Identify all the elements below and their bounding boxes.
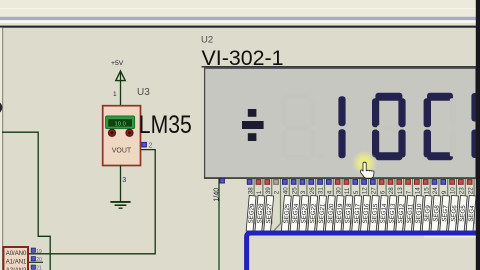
wire power to LM35 pin1 — [120, 72, 122, 106]
pin state square SEG25 — [283, 180, 288, 185]
bus to MCU — [247, 233, 477, 270]
svg-text:SEG8: SEG8 — [432, 204, 440, 222]
wire segment pin SEG25 to bus — [282, 178, 289, 231]
pin state square SEG18 — [344, 180, 349, 185]
wire label SEG17 — [352, 195, 363, 231]
pin state square SEG20 — [327, 180, 332, 185]
wire label SEG18 — [343, 195, 354, 231]
digit C — [424, 93, 453, 161]
wire segment pin SEG27 to bus — [264, 178, 271, 231]
svg-text:12: 12 — [362, 187, 369, 195]
wire label SEG23 — [299, 195, 310, 231]
pin state square SEG13 — [388, 180, 393, 185]
wire segment pin SEG15 to bus — [370, 178, 377, 231]
svg-text:19: 19 — [36, 249, 42, 255]
PIC MCU body (partial) — [3, 247, 28, 270]
svg-text:25: 25 — [291, 187, 298, 195]
pin state square SEG26 — [274, 180, 279, 185]
partial digit at right edge — [471, 93, 478, 158]
pin state square SEG5 — [459, 180, 464, 185]
svg-text:7: 7 — [406, 190, 413, 194]
wire segment pin SEG8 to bus — [432, 178, 439, 231]
wire segment pin SEG4 to bus — [467, 178, 474, 231]
svg-text:40: 40 — [283, 187, 290, 195]
pin state square SEG21 — [318, 180, 323, 185]
wire segment pin SEG22 to bus — [308, 178, 315, 231]
svg-text:39: 39 — [265, 187, 272, 195]
svg-text:SEG5: SEG5 — [459, 204, 467, 222]
svg-text:30: 30 — [335, 187, 342, 195]
hand cursor — [360, 162, 374, 178]
wire label SEG11 — [405, 195, 416, 231]
pin state square SEG19 — [335, 180, 340, 185]
wire segment pin SEG7 to bus — [440, 178, 447, 231]
svg-text:3: 3 — [122, 177, 126, 184]
wire segment pin SEG17 to bus — [352, 178, 359, 231]
wire segment pin SEG9 to bus — [423, 178, 430, 231]
left edge terminal blob — [0, 103, 2, 113]
svg-text:A0/AN0: A0/AN0 — [6, 251, 27, 257]
wire label SEG20 — [325, 195, 336, 231]
wire segment pin SEG13 to bus — [388, 178, 395, 231]
wire label SEG29 — [246, 195, 257, 231]
svg-text:1: 1 — [256, 190, 263, 194]
LM35 up knob — [108, 129, 115, 136]
wire label SEG8 — [431, 195, 442, 231]
pin state square 1/40 — [220, 178, 225, 183]
LM35 pin2 state square — [142, 142, 147, 147]
toolbar band top — [0, 0, 480, 17]
svg-text:SEG4: SEG4 — [468, 204, 476, 222]
wire segment pin SEG28 to bus — [256, 178, 263, 231]
pin state square SEG11 — [406, 180, 411, 185]
ground symbol — [110, 201, 130, 203]
LCD minus/plus sign segments — [248, 109, 257, 117]
svg-text:VOUT: VOUT — [112, 147, 132, 154]
wire segment pin SEG23 to bus — [300, 178, 307, 231]
wire label SEG22 — [308, 195, 319, 231]
wire label SEG14 — [378, 195, 389, 231]
wire label SEG5 — [457, 195, 468, 231]
svg-text:38: 38 — [247, 187, 254, 195]
pin state square AN0 — [31, 248, 35, 252]
wire label SEG28 — [255, 195, 266, 231]
wire segment pin SEG14 to bus — [379, 178, 386, 231]
wire segment pin SEG10 to bus — [414, 178, 421, 231]
svg-text:LM35: LM35 — [139, 111, 192, 139]
pin state square SEG24 — [291, 180, 296, 185]
bus highlight — [424, 236, 476, 238]
LM35 green display — [106, 116, 135, 129]
white divider — [0, 20, 480, 23]
svg-text:+5V: +5V — [111, 60, 124, 67]
digit 0 — [372, 93, 406, 161]
svg-text:21: 21 — [36, 266, 42, 270]
wire segment pin SEG19 to bus — [335, 178, 342, 231]
svg-text:5: 5 — [353, 190, 360, 194]
LM35 down knob — [126, 129, 133, 136]
digit 1 — [338, 96, 345, 158]
svg-text:27: 27 — [371, 187, 378, 195]
pin state square SEG23 — [300, 180, 305, 185]
left editor border — [0, 28, 2, 270]
wire label SEG4 — [466, 195, 477, 231]
wire label SEG7 — [440, 195, 451, 231]
svg-text:1: 1 — [113, 91, 117, 98]
wire label SEG24 — [290, 195, 301, 231]
svg-text:6: 6 — [379, 190, 386, 194]
svg-text:13: 13 — [397, 187, 404, 195]
pin state square SEG10 — [415, 180, 420, 185]
svg-text:11: 11 — [344, 187, 351, 194]
ghost right bars of C cell — [450, 98, 456, 126]
svg-text:SEG7: SEG7 — [441, 204, 449, 222]
svg-text:23: 23 — [459, 187, 466, 195]
wire segment pin SEG16 to bus — [361, 178, 368, 231]
pin state square SEG29 — [247, 180, 252, 185]
svg-text:31: 31 — [318, 187, 325, 195]
svg-text:1/40: 1/40 — [213, 188, 220, 202]
svg-text:U2: U2 — [201, 35, 213, 46]
wire label SEG13 — [387, 195, 398, 231]
wire segment pin SEG24 to bus — [291, 178, 298, 231]
wire segment pin SEG26 to bus — [273, 178, 280, 231]
svg-text:14: 14 — [415, 187, 422, 195]
backplane pin 1/40 wire — [218, 178, 220, 270]
svg-text:10: 10 — [450, 187, 457, 195]
pin state square SEG27 — [265, 180, 270, 185]
pin state square SEG4 — [467, 180, 472, 185]
wire label SEG27 — [264, 195, 275, 231]
cursor glow — [0, 0, 1, 1]
svg-text:SEG9: SEG9 — [424, 204, 432, 222]
right window border — [476, 0, 480, 270]
svg-text:22: 22 — [467, 187, 474, 195]
pin state square SEG14 — [379, 180, 384, 185]
wire segment pin SEG12 to bus — [396, 178, 403, 231]
pin state square SEG8 — [432, 180, 437, 185]
wire label SEG16 — [361, 195, 372, 231]
LCD bottom edge — [204, 177, 476, 179]
wire label SEG19 — [334, 195, 345, 231]
wire label SEG6 — [449, 195, 460, 231]
svg-text:20: 20 — [36, 257, 42, 263]
ghost digit (unlit) — [281, 94, 323, 161]
pin state square SEG6 — [450, 180, 455, 185]
svg-text:4: 4 — [327, 190, 334, 194]
pin state square SEG22 — [309, 180, 314, 185]
dark window edge line — [0, 26, 480, 28]
svg-text:3: 3 — [300, 190, 307, 194]
wire segment pin SEG6 to bus — [449, 178, 456, 231]
wire segment pin SEG5 to bus — [458, 178, 465, 231]
wire LM35 pin3 to ground — [120, 166, 122, 202]
wire label SEG21 — [317, 195, 328, 231]
lavender divider — [0, 17, 480, 20]
pin state square AN2 — [31, 265, 35, 269]
wire label SEG25 — [281, 195, 292, 231]
LCD U2 body — [205, 68, 476, 178]
pin state square SEG16 — [362, 180, 367, 185]
wire label SEG12 — [396, 195, 407, 231]
svg-text:15: 15 — [423, 187, 430, 195]
svg-text:2: 2 — [149, 143, 153, 150]
wire segment pin SEG21 to bus — [317, 178, 324, 231]
svg-text:2: 2 — [274, 190, 281, 194]
value underline — [202, 66, 477, 68]
pin stub AN1 — [29, 261, 43, 263]
pin state square SEG9 — [423, 180, 428, 185]
LM35 U3 body — [103, 106, 141, 166]
wire label SEG15 — [369, 195, 380, 231]
pin state square SEG12 — [397, 180, 402, 185]
svg-text:A1/AN1: A1/AN1 — [6, 260, 27, 266]
svg-text:26: 26 — [309, 187, 316, 195]
wire label SEG10 — [413, 195, 424, 231]
svg-text:9: 9 — [441, 190, 448, 194]
pin state square SEG15 — [371, 180, 376, 185]
wire segment pin SEG29 to bus — [247, 178, 254, 231]
svg-text:10.0: 10.0 — [115, 122, 126, 128]
pin state square SEG28 — [256, 180, 261, 185]
wire segment pin SEG20 to bus — [326, 178, 333, 231]
ghost middle of digit 0 — [377, 125, 400, 131]
wire label SEG9 — [422, 195, 433, 231]
svg-text:28: 28 — [388, 187, 395, 195]
pin state square SEG17 — [353, 180, 358, 185]
svg-text:U3: U3 — [137, 87, 150, 98]
pin state square AN1 — [31, 257, 35, 261]
wire from left edge to PIC (net A) — [2, 132, 50, 270]
svg-text:SEG6: SEG6 — [450, 204, 458, 222]
wire LM35 VOUT to PIC AN0 — [29, 150, 156, 254]
wire segment pin SEG18 to bus — [344, 178, 351, 231]
svg-text:24: 24 — [432, 187, 439, 195]
pin state square SEG7 — [441, 180, 446, 185]
wire segment pin SEG11 to bus — [405, 178, 412, 231]
